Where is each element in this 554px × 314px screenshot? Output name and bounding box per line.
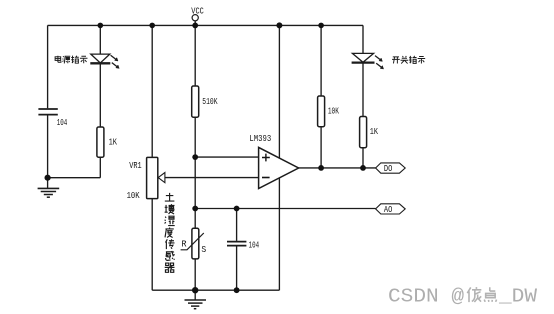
svg-text:510K: 510K bbox=[202, 96, 217, 107]
svg-text:1K: 1K bbox=[109, 137, 118, 148]
svg-text:AO: AO bbox=[384, 204, 393, 215]
svg-text:DO: DO bbox=[384, 163, 393, 174]
svg-text:104: 104 bbox=[57, 117, 68, 128]
svg-text:VCC: VCC bbox=[191, 6, 204, 17]
svg-text:R: R bbox=[181, 238, 187, 249]
svg-text:_DW: _DW bbox=[498, 286, 538, 308]
svg-text:S: S bbox=[201, 244, 206, 255]
svg-text:10K: 10K bbox=[127, 190, 140, 201]
svg-text:1K: 1K bbox=[370, 126, 378, 137]
svg-text:LM393: LM393 bbox=[249, 133, 271, 144]
svg-text:104: 104 bbox=[249, 239, 260, 250]
svg-text:10K: 10K bbox=[328, 105, 339, 116]
svg-text:VR1: VR1 bbox=[129, 160, 142, 171]
svg-text:CSDN @: CSDN @ bbox=[388, 286, 465, 308]
